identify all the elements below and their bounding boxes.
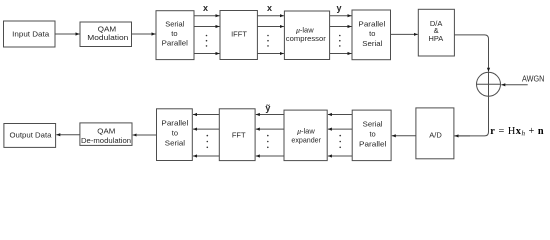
svg-text:Modulation: Modulation bbox=[87, 33, 128, 42]
svg-text:to: to bbox=[171, 29, 177, 38]
svg-text:compressor: compressor bbox=[286, 34, 327, 43]
svg-text:Parallel: Parallel bbox=[359, 139, 387, 148]
svg-text:QAM: QAM bbox=[97, 127, 115, 136]
svg-text:A/D: A/D bbox=[429, 130, 442, 139]
svg-text:ỹ: ỹ bbox=[265, 103, 270, 113]
svg-text:Parallel: Parallel bbox=[161, 119, 188, 128]
svg-text:Serial: Serial bbox=[363, 120, 383, 129]
svg-text:Output Data: Output Data bbox=[10, 130, 53, 139]
svg-text:μ-law: μ-law bbox=[297, 127, 315, 136]
svg-text:Input Data: Input Data bbox=[12, 29, 50, 38]
svg-text:expander: expander bbox=[291, 135, 321, 144]
svg-text:Parallel: Parallel bbox=[358, 19, 385, 28]
svg-text:IFFT: IFFT bbox=[231, 30, 247, 39]
svg-text:Serial: Serial bbox=[165, 138, 186, 147]
svg-text:x: x bbox=[203, 3, 208, 13]
svg-text:to: to bbox=[369, 29, 375, 38]
svg-text:to: to bbox=[369, 129, 375, 138]
svg-text:De-modulation: De-modulation bbox=[81, 136, 131, 145]
svg-text:HPA: HPA bbox=[429, 34, 444, 43]
svg-text:to: to bbox=[172, 128, 178, 137]
svg-text:Serial: Serial bbox=[362, 39, 382, 48]
svg-text:x: x bbox=[267, 3, 272, 13]
svg-text:r = Hxh + n: r = Hxh + n bbox=[490, 126, 544, 138]
svg-text:FFT: FFT bbox=[232, 130, 246, 139]
svg-text:Parallel: Parallel bbox=[162, 39, 189, 48]
svg-text:Serial: Serial bbox=[165, 20, 185, 29]
svg-text:AWGN: AWGN bbox=[522, 74, 544, 83]
svg-text:y: y bbox=[336, 3, 341, 13]
